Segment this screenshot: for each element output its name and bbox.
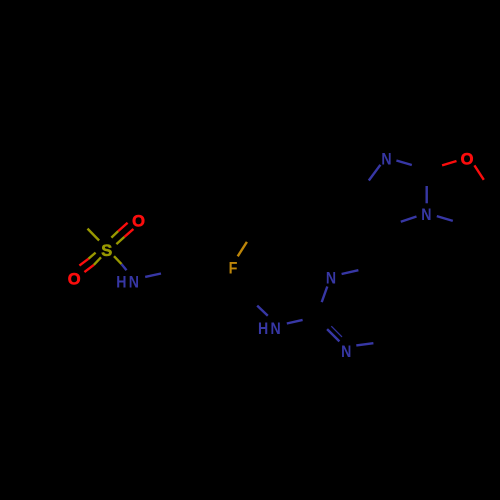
svg-text:N: N xyxy=(129,274,139,292)
svg-text:O: O xyxy=(132,213,145,231)
svg-text:O: O xyxy=(461,150,474,168)
svg-text:N: N xyxy=(271,320,281,338)
svg-text:O: O xyxy=(68,271,81,289)
svg-text:H: H xyxy=(258,320,268,338)
svg-text:N: N xyxy=(381,151,391,169)
svg-text:H: H xyxy=(116,274,126,292)
svg-text:S: S xyxy=(101,242,112,260)
svg-text:N: N xyxy=(421,206,431,224)
svg-text:N: N xyxy=(326,269,336,287)
svg-text:N: N xyxy=(341,343,351,361)
svg-text:F: F xyxy=(229,260,238,278)
